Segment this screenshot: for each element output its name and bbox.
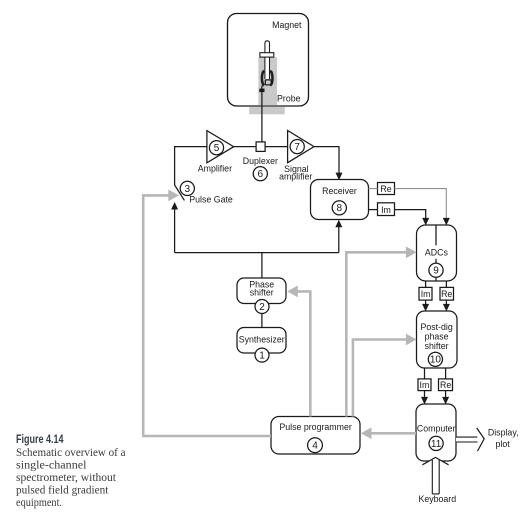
duplexer square <box>243 142 278 166</box>
probe body (gray) <box>228 14 309 115</box>
svg-text:Keyboard: Keyboard <box>418 494 456 504</box>
wire duplexer to signal amplifier <box>265 146 288 148</box>
pulse gate switch blade <box>175 181 233 204</box>
display plot outline arrow <box>456 427 519 451</box>
phase shifter box U2 <box>237 278 286 314</box>
magnet box <box>228 14 309 107</box>
wire to receiver reference input with up arrow <box>335 220 342 253</box>
computer box U11 <box>416 404 456 461</box>
pulse programmer box U4 <box>271 417 360 455</box>
ADCs box U9 <box>417 225 457 281</box>
wire Re2 to post-dig with arrow <box>443 300 450 311</box>
wire synthesizer distribution line <box>175 252 339 254</box>
Re2 box <box>440 287 454 300</box>
svg-text:Re: Re <box>380 184 391 194</box>
svg-text:amplifier: amplifier <box>279 172 312 182</box>
gray control line pulse programmer to ADCs <box>346 246 416 416</box>
gray control line computer to pulse programmer <box>361 427 416 439</box>
svg-text:ADCs: ADCs <box>425 248 449 258</box>
post-dig phase shifter box U10 <box>417 311 458 368</box>
svg-text:Im: Im <box>381 205 391 215</box>
synthesizer box U1 <box>237 328 286 363</box>
svg-text:2: 2 <box>259 302 265 313</box>
svg-text:1: 1 <box>259 351 265 362</box>
svg-text:Synthesizer: Synthesizer <box>239 334 285 344</box>
wire probe to duplexer <box>261 86 263 142</box>
wire post-dig to Re3 <box>445 368 447 379</box>
Im3 box <box>418 379 431 391</box>
gray control line pulse programmer to post-dig shifter <box>353 334 417 417</box>
svg-text:Re: Re <box>440 380 451 390</box>
wire Im box to ADC left input <box>395 210 430 226</box>
wire amplifier input from pulse gate <box>175 147 207 185</box>
svg-text:Re: Re <box>441 289 452 299</box>
signal amplifier U7 triangle <box>279 131 314 182</box>
svg-text:9: 9 <box>433 266 439 277</box>
caption body <box>16 445 126 509</box>
circled 6 <box>253 167 267 181</box>
gray control line pulse programmer to phase shifter <box>287 286 310 417</box>
receiver box U8 <box>311 180 369 220</box>
svg-text:3: 3 <box>185 184 191 195</box>
wire signal amplifier to receiver with down arrow <box>314 147 343 181</box>
svg-text:Magnet: Magnet <box>272 20 302 30</box>
Im2 box <box>419 287 432 300</box>
svg-text:plot: plot <box>496 439 511 449</box>
svg-text:shifter: shifter <box>425 341 449 351</box>
amplifier U5 triangle <box>198 131 234 174</box>
svg-text:6: 6 <box>258 169 264 180</box>
svg-text:Probe: Probe <box>277 93 301 103</box>
wire Im2 to post-dig with arrow <box>422 300 429 311</box>
wire below pulse gate with up arrow <box>171 202 178 253</box>
Re3 box <box>439 379 453 391</box>
keyboard outline arrow <box>418 457 456 504</box>
sample tube <box>260 41 274 79</box>
svg-text:Pulse programmer: Pulse programmer <box>279 422 351 432</box>
svg-text:8: 8 <box>337 203 343 214</box>
Re output box <box>378 183 395 195</box>
wire Im3 to computer with arrow <box>421 391 428 405</box>
svg-text:7: 7 <box>294 142 300 153</box>
svg-text:Im: Im <box>420 380 430 390</box>
svg-text:Amplifier: Amplifier <box>198 164 232 174</box>
wire phase shifter to distribution line <box>261 253 263 278</box>
wire receiver to Re box <box>369 188 378 190</box>
svg-text:10: 10 <box>430 355 442 366</box>
wire receiver to Im box <box>369 209 378 211</box>
svg-text:4: 4 <box>312 441 318 452</box>
wire post-dig to Im3 <box>424 368 426 379</box>
wire Re box to ADC right input <box>395 189 450 226</box>
svg-text:5: 5 <box>214 143 220 154</box>
svg-text:equipment.: equipment. <box>16 495 62 509</box>
svg-text:Computer: Computer <box>417 423 456 433</box>
Im output box <box>378 203 395 216</box>
wire Re3 to computer with arrow <box>442 391 449 405</box>
svg-text:Im: Im <box>421 289 431 299</box>
wire duplexer to amplifier <box>234 146 256 148</box>
rf coil <box>259 71 272 92</box>
wire synthesizer to phase shifter <box>261 314 263 328</box>
gray control line pulse programmer to pulse gate <box>143 190 271 437</box>
svg-text:Pulse Gate: Pulse Gate <box>189 194 233 204</box>
svg-text:11: 11 <box>431 439 442 450</box>
wire ADC to Re2 <box>445 281 447 287</box>
wire ADC to Im2 <box>425 281 427 287</box>
svg-text:Display,: Display, <box>488 427 519 437</box>
svg-text:Duplexer: Duplexer <box>243 156 278 166</box>
svg-text:shifter: shifter <box>250 288 274 298</box>
svg-text:Receiver: Receiver <box>322 186 357 196</box>
